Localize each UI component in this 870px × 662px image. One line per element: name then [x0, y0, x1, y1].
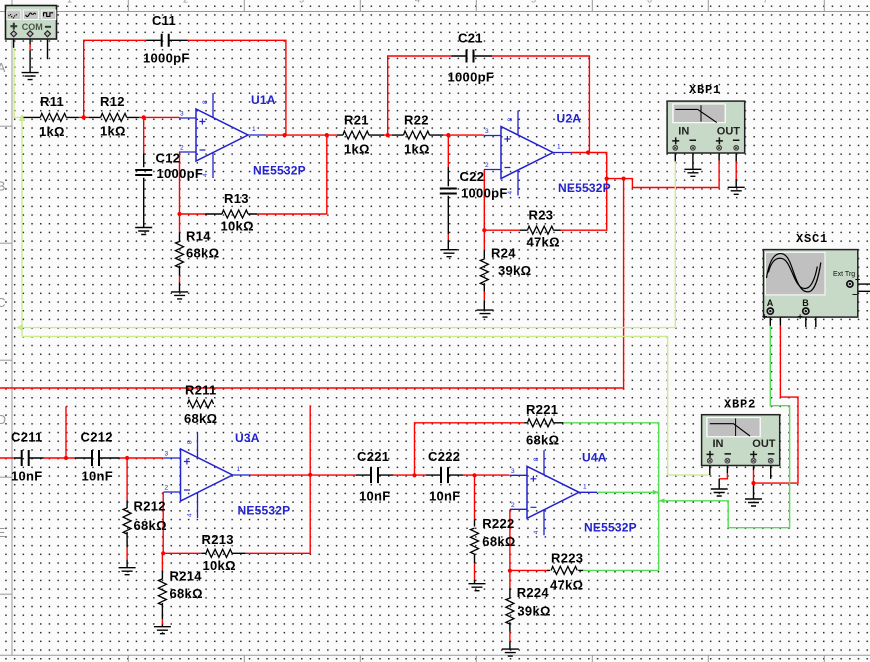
svg-text:3: 3	[165, 451, 169, 458]
svg-text:3: 3	[511, 468, 515, 475]
svg-text:C22: C22	[460, 169, 485, 184]
svg-text:R14: R14	[186, 229, 211, 244]
svg-text:4: 4	[415, 0, 420, 5]
svg-text:1: 1	[557, 144, 561, 151]
svg-text:1000pF: 1000pF	[157, 166, 204, 181]
svg-text:U2A: U2A	[557, 112, 582, 126]
svg-text:C222: C222	[428, 449, 460, 464]
svg-text:R213: R213	[202, 532, 234, 547]
svg-text:10kΩ: 10kΩ	[203, 558, 236, 573]
svg-text:2: 2	[183, 0, 188, 5]
svg-text:−: −	[852, 290, 857, 300]
svg-text:R22: R22	[404, 113, 429, 128]
svg-text:R221: R221	[526, 402, 558, 417]
svg-text:10nF: 10nF	[359, 489, 391, 504]
svg-text:8: 8	[202, 100, 209, 104]
svg-text:U1A: U1A	[251, 93, 276, 107]
svg-text:68kΩ: 68kΩ	[184, 411, 217, 426]
svg-text:D: D	[0, 413, 6, 427]
svg-text:C12: C12	[156, 151, 181, 166]
svg-text:R211: R211	[185, 383, 217, 398]
svg-text:7: 7	[763, 0, 768, 5]
svg-text:XBP2: XBP2	[724, 397, 756, 411]
svg-text:39kΩ: 39kΩ	[517, 604, 550, 619]
svg-text:R224: R224	[517, 585, 550, 600]
svg-text:6: 6	[647, 0, 652, 5]
svg-text:68kΩ: 68kΩ	[170, 586, 203, 601]
svg-text:3: 3	[299, 0, 304, 5]
svg-text:2: 2	[165, 485, 169, 492]
svg-text:68kΩ: 68kΩ	[134, 518, 167, 533]
svg-text:C21: C21	[458, 31, 483, 46]
svg-text:2: 2	[180, 145, 184, 152]
svg-text:5: 5	[531, 0, 536, 5]
svg-text:1000pF: 1000pF	[461, 186, 508, 201]
svg-text:−: −	[816, 312, 821, 322]
svg-text:NE5532P: NE5532P	[584, 521, 637, 535]
svg-text:39kΩ: 39kΩ	[498, 263, 531, 278]
svg-text:3: 3	[180, 111, 184, 118]
svg-text:C: C	[0, 296, 6, 310]
svg-text:+: +	[798, 312, 803, 322]
svg-text:R223: R223	[551, 551, 583, 566]
svg-text:1kΩ: 1kΩ	[100, 124, 126, 139]
svg-text:R24: R24	[491, 246, 516, 261]
svg-text:C221: C221	[357, 449, 389, 464]
svg-text:4: 4	[533, 530, 540, 534]
svg-text:R222: R222	[482, 516, 514, 531]
svg-text:NE5532P: NE5532P	[558, 181, 611, 195]
svg-text:10nF: 10nF	[11, 469, 43, 484]
svg-text:1kΩ: 1kΩ	[404, 142, 430, 157]
svg-text:+: +	[762, 312, 767, 322]
svg-text:R12: R12	[100, 94, 125, 109]
svg-text:R13: R13	[224, 191, 249, 206]
svg-text:B: B	[802, 298, 809, 308]
svg-text:1000pF: 1000pF	[143, 51, 190, 66]
svg-text:B: B	[0, 180, 5, 194]
svg-text:10nF: 10nF	[82, 469, 114, 484]
svg-text:1: 1	[583, 483, 587, 490]
svg-text:2: 2	[485, 162, 489, 169]
svg-text:E: E	[0, 526, 5, 540]
svg-text:NE5532P: NE5532P	[253, 164, 306, 178]
svg-text:C11: C11	[152, 13, 176, 28]
svg-text:1000pF: 1000pF	[448, 70, 495, 85]
svg-text:OUT: OUT	[717, 125, 741, 137]
svg-text:R21: R21	[344, 113, 369, 128]
svg-text:C211: C211	[11, 430, 43, 445]
svg-text:NE5532P: NE5532P	[238, 504, 291, 518]
svg-text:10kΩ: 10kΩ	[221, 219, 254, 234]
svg-text:47kΩ: 47kΩ	[550, 578, 583, 593]
svg-text:68kΩ: 68kΩ	[186, 246, 219, 261]
svg-text:C212: C212	[81, 430, 113, 445]
svg-text:2: 2	[511, 502, 515, 509]
svg-text:4: 4	[187, 513, 194, 517]
svg-text:1kΩ: 1kΩ	[344, 142, 370, 157]
svg-text:IN: IN	[713, 438, 724, 450]
svg-text:−: −	[781, 312, 786, 322]
svg-text:1: 1	[252, 126, 256, 133]
svg-text:8: 8	[187, 440, 194, 444]
svg-text:A: A	[0, 61, 6, 75]
svg-text:4: 4	[507, 191, 514, 195]
svg-text:XBP1: XBP1	[689, 83, 721, 97]
svg-text:1kΩ: 1kΩ	[39, 124, 65, 139]
svg-text:IN: IN	[678, 125, 689, 137]
svg-text:10nF: 10nF	[429, 489, 461, 504]
svg-text:68kΩ: 68kΩ	[482, 534, 515, 549]
svg-text:+: +	[855, 275, 860, 285]
svg-text:A: A	[767, 298, 774, 308]
svg-text:8: 8	[507, 118, 514, 122]
svg-text:U3A: U3A	[235, 431, 260, 445]
svg-text:8: 8	[533, 457, 540, 461]
svg-text:Ext Trg: Ext Trg	[833, 271, 855, 278]
svg-text:1: 1	[67, 0, 72, 5]
svg-text:47kΩ: 47kΩ	[527, 235, 560, 250]
svg-text:R23: R23	[529, 208, 554, 223]
svg-text:XSC1: XSC1	[796, 232, 828, 246]
svg-text:68kΩ: 68kΩ	[526, 433, 559, 448]
svg-text:3: 3	[485, 128, 489, 135]
svg-text:OUT: OUT	[752, 438, 776, 450]
svg-text:R214: R214	[170, 569, 203, 584]
svg-text:COM: COM	[22, 22, 43, 32]
svg-text:U4A: U4A	[582, 451, 607, 465]
svg-text:R212: R212	[134, 499, 166, 514]
svg-text:R11: R11	[40, 94, 64, 109]
svg-text:1: 1	[237, 466, 241, 473]
